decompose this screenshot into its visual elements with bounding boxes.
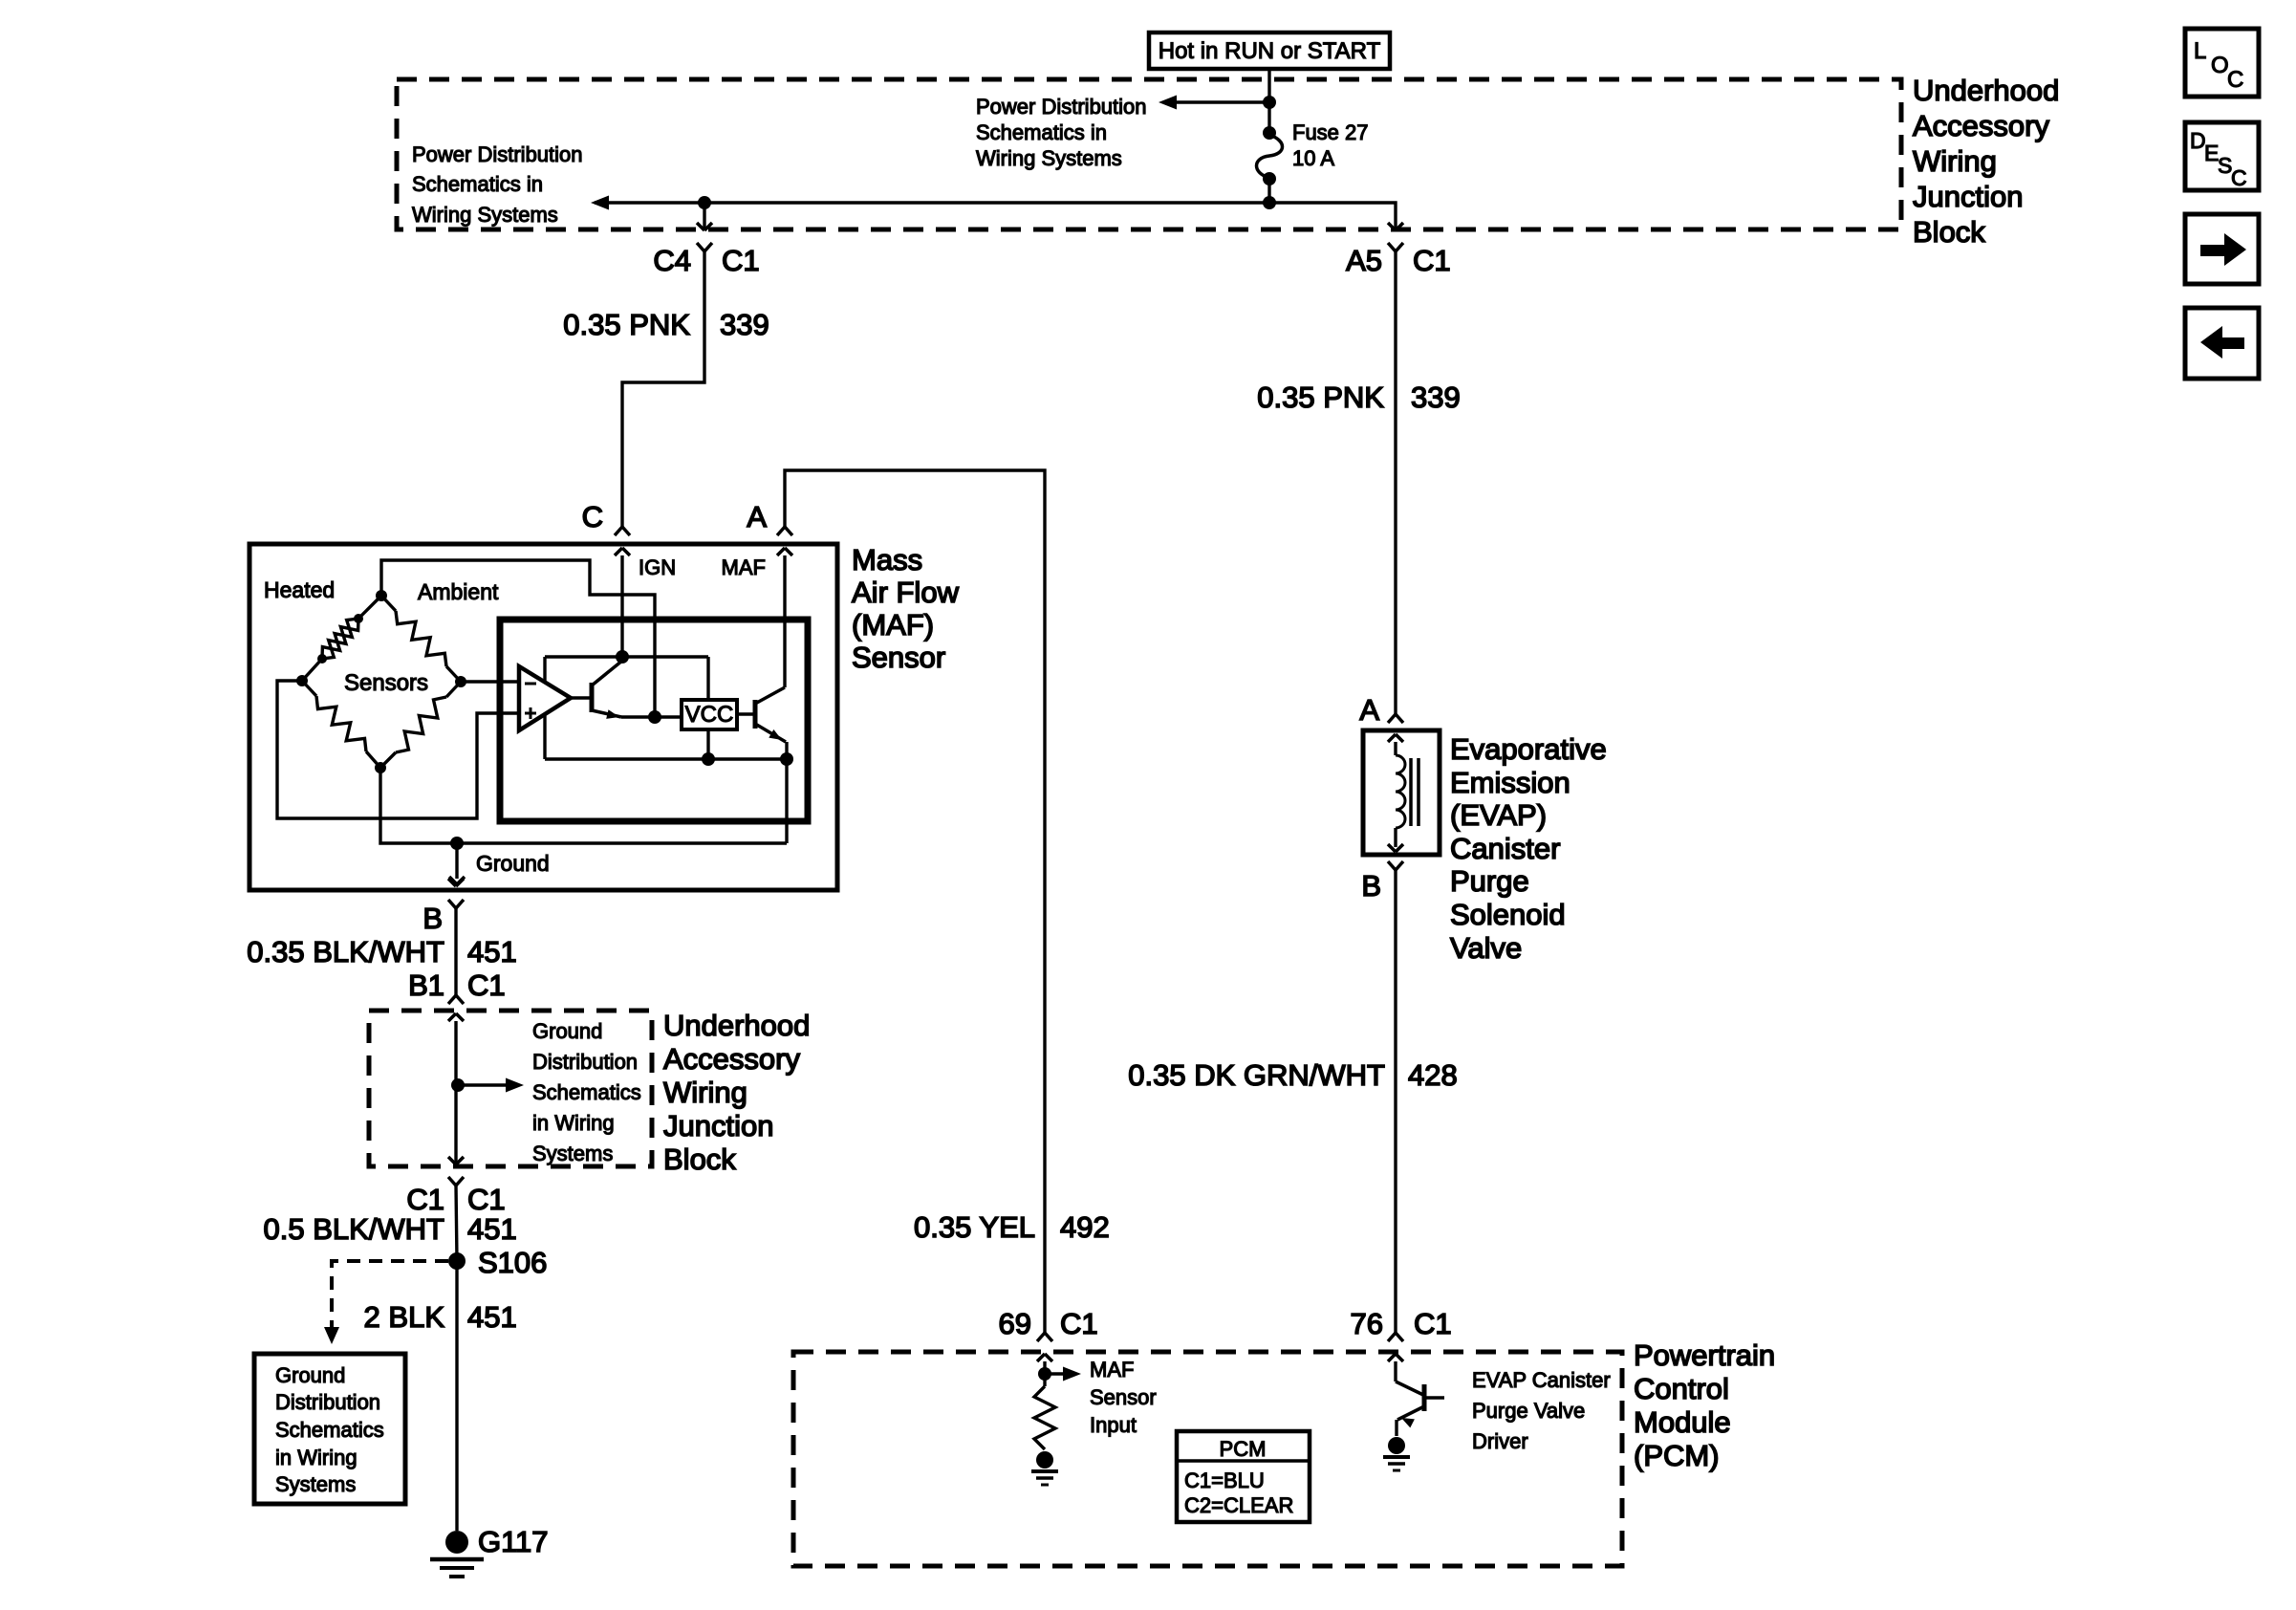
svg-text:MAF: MAF [722, 555, 766, 579]
svg-text:Junction: Junction [663, 1109, 773, 1142]
svg-text:0.35 PNK: 0.35 PNK [1257, 381, 1384, 414]
svg-text:492: 492 [1060, 1210, 1110, 1244]
svg-text:Systems: Systems [532, 1142, 613, 1165]
svg-text:B: B [1361, 869, 1381, 903]
wire: bridge left node to opamp + input [277, 681, 519, 818]
connector 69/C1 (PCM) [1037, 1333, 1045, 1341]
svg-text:C4: C4 [653, 244, 691, 277]
svg-text:L: L [2194, 38, 2206, 64]
svg-text:Valve: Valve [1450, 931, 1522, 965]
svg-text:C1: C1 [1060, 1307, 1098, 1340]
svg-text:B: B [422, 902, 443, 935]
ground distribution callout box [254, 1354, 405, 1504]
svg-text:Power Distribution: Power Distribution [976, 95, 1147, 119]
wire: arrow to ground distribution schematics [458, 1083, 510, 1086]
svg-text:C1: C1 [467, 1183, 506, 1216]
transistor Q1 (regulator pass) [571, 696, 592, 699]
svg-text:0.35 DK GRN/WHT: 0.35 DK GRN/WHT [1128, 1058, 1385, 1092]
svg-text:76: 76 [1351, 1307, 1383, 1340]
svg-text:Distribution: Distribution [532, 1050, 638, 1074]
svg-text:(PCM): (PCM) [1634, 1439, 1720, 1472]
svg-text:Powertrain: Powertrain [1634, 1338, 1775, 1372]
svg-text:Module: Module [1634, 1405, 1731, 1439]
svg-text:Distribution: Distribution [275, 1390, 380, 1414]
svg-text:Schematics in: Schematics in [976, 120, 1107, 144]
underhood accessory wiring junction block (dashed outline) [397, 79, 1901, 229]
svg-text:Underhood: Underhood [663, 1009, 810, 1042]
svg-text:IGN: IGN [639, 555, 676, 579]
svg-text:Accessory: Accessory [663, 1042, 800, 1076]
svg-text:2 BLK: 2 BLK [364, 1300, 445, 1334]
svg-text:Heated: Heated [264, 577, 335, 602]
svg-text:Wiring Systems: Wiring Systems [976, 146, 1122, 170]
svg-text:0.35 YEL: 0.35 YEL [914, 1210, 1035, 1244]
svg-text:C1: C1 [406, 1183, 444, 1216]
PCM connector legend box [1177, 1431, 1310, 1522]
svg-text:0.35 BLK/WHT: 0.35 BLK/WHT [247, 935, 444, 968]
node: bridge top [376, 590, 387, 601]
node: junction to ground distribution [451, 1078, 465, 1092]
regulator VCC box [682, 700, 737, 729]
wire: bridge bottom node to ground rail [380, 768, 787, 843]
wire: C4 drop [703, 203, 705, 229]
svg-text:VCC: VCC [685, 702, 734, 728]
svg-text:428: 428 [1408, 1058, 1458, 1092]
node: bus junction at C4 drop [698, 196, 711, 209]
wire 451: MAF B down to junction block [454, 908, 457, 995]
svg-text:(MAF): (MAF) [852, 608, 934, 642]
wire: MAF pin inside (to output transistor collector) [783, 555, 786, 687]
node: bridge bottom [375, 762, 386, 773]
wire 428: EVAP B down to PCM [1394, 870, 1397, 1333]
splice S106 [448, 1252, 466, 1270]
svg-text:Solenoid: Solenoid [1450, 898, 1566, 931]
solenoid core bars [1409, 758, 1413, 826]
svg-text:C2=CLEAR: C2=CLEAR [1184, 1493, 1293, 1517]
wire: through ground junction block [448, 1013, 456, 1021]
op-amp U1 [519, 666, 571, 730]
svg-text:Sensor: Sensor [852, 641, 945, 674]
wire: feedback loop left [543, 657, 546, 759]
node: Q1 emitter / bridge supply [648, 710, 661, 724]
svg-text:C1: C1 [1414, 1307, 1452, 1340]
ground junction block (dashed outline) [369, 1011, 652, 1166]
svg-text:Schematics: Schematics [532, 1080, 641, 1104]
svg-text:Purge: Purge [1450, 864, 1529, 898]
svg-text:10 A: 10 A [1292, 146, 1334, 170]
wire: bridge top node to regulator supply [381, 560, 655, 716]
node: feed junction [1263, 96, 1276, 109]
svg-text:Air Flow: Air Flow [852, 576, 960, 609]
sidebar icon: previous arrow [2185, 308, 2259, 379]
svg-text:Evaporative: Evaporative [1450, 732, 1607, 766]
svg-text:S106: S106 [478, 1246, 547, 1279]
svg-text:0.5 BLK/WHT: 0.5 BLK/WHT [264, 1212, 445, 1246]
svg-text:Systems: Systems [275, 1472, 356, 1496]
wire 451: S106 down to G117 [455, 1261, 458, 1531]
sidebar icon: DESC [2185, 122, 2259, 190]
connector 76/C1 (PCM) [1388, 1333, 1396, 1341]
connector B1/C1 [448, 995, 456, 1004]
node: bridge right [455, 676, 466, 687]
wire: MAF ground drop [455, 843, 458, 879]
svg-text:G117: G117 [478, 1525, 549, 1558]
ground G117 [445, 1531, 468, 1554]
svg-text:Sensor: Sensor [1090, 1385, 1157, 1409]
svg-text:Power Distribution: Power Distribution [412, 142, 583, 166]
wire: ground rail up to output emitter [785, 759, 788, 843]
sidebar icon: next arrow [2185, 214, 2259, 284]
svg-text:Junction: Junction [1913, 180, 2023, 213]
wire: MAF sensor input inside PCM [1043, 1361, 1046, 1386]
svg-text:451: 451 [467, 1212, 517, 1246]
svg-text:Schematics: Schematics [275, 1418, 384, 1442]
svg-text:Ground: Ground [476, 851, 550, 876]
powertrain control module (dashed outline) [793, 1352, 1622, 1566]
resistor: bridge bottom-right [446, 682, 461, 697]
svg-text:Emission: Emission [1450, 766, 1570, 799]
connector: EVAP pin A [1388, 714, 1396, 723]
svg-text:Mass: Mass [852, 543, 922, 577]
svg-text:MAF: MAF [1090, 1358, 1134, 1382]
power feed callout box: Hot in RUN or START [1149, 33, 1390, 69]
svg-text:Sensors: Sensors [344, 670, 428, 696]
node: VCC bottom junction [702, 752, 715, 766]
connector: MAF pin C [615, 527, 622, 535]
svg-text:A: A [1359, 693, 1379, 727]
svg-text:Wiring: Wiring [1913, 144, 1997, 178]
connector A5/C1 (junction block to harness) [1388, 223, 1396, 230]
svg-text:Control: Control [1634, 1372, 1729, 1405]
svg-text:339: 339 [720, 308, 769, 341]
svg-text:Underhood: Underhood [1913, 74, 2059, 107]
resistor: MAF input load [1034, 1386, 1055, 1449]
svg-text:339: 339 [1411, 381, 1461, 414]
svg-text:O: O [2211, 53, 2229, 78]
svg-text:451: 451 [467, 1300, 517, 1334]
resistor: ambient sensor (bridge top-right) [381, 596, 396, 611]
node: Q2 emitter junction [780, 752, 793, 766]
svg-text:Purge Valve: Purge Valve [1472, 1399, 1585, 1423]
wire: arrow to MAF Sensor Input label [1045, 1372, 1068, 1375]
node: IGN to Q1 collector / feedback [616, 650, 629, 664]
svg-text:Ground: Ground [532, 1019, 602, 1043]
svg-text:Input: Input [1090, 1413, 1137, 1437]
solenoid coil L1 [1394, 742, 1397, 755]
svg-text:Fuse 27: Fuse 27 [1292, 120, 1369, 144]
wire: arrow to Power Distribution (top) [1174, 100, 1269, 103]
resistor: bridge bottom-left [302, 681, 316, 696]
svg-text:C: C [2231, 165, 2247, 190]
amplifier module box (inner thick box) [500, 620, 808, 821]
wire: VCC top to feedback [706, 657, 709, 700]
wire: bridge right node to opamp - input [461, 680, 519, 683]
svg-text:EVAP Canister: EVAP Canister [1472, 1368, 1611, 1392]
wire: VCC bottom [706, 729, 709, 759]
svg-text:69: 69 [999, 1307, 1031, 1340]
svg-text:Accessory: Accessory [1913, 109, 2049, 142]
svg-text:Block: Block [663, 1142, 736, 1176]
svg-text:Ambient: Ambient [418, 579, 499, 604]
svg-text:in Wiring: in Wiring [532, 1111, 615, 1135]
svg-text:451: 451 [467, 935, 517, 968]
svg-text:in Wiring: in Wiring [275, 1446, 357, 1469]
connector: MAF pin A [777, 527, 785, 535]
resistor: heated sensor (double zigzag) [358, 596, 381, 619]
wire: IGN pin inside MAF [620, 555, 623, 657]
node: bridge left [296, 675, 308, 686]
wire 339: A5/C1 down to EVAP valve [1394, 251, 1397, 714]
svg-text:Ground: Ground [275, 1363, 345, 1387]
ground: EVAP driver (inside PCM) [1388, 1437, 1405, 1454]
svg-text:C: C [582, 500, 603, 533]
svg-text:0.35 PNK: 0.35 PNK [563, 308, 690, 341]
wire 339 segment: C1 to MAF pin C [622, 251, 704, 527]
ground: MAF input (inside PCM) [1036, 1451, 1053, 1469]
wire 451: to S106 [456, 1186, 457, 1261]
svg-text:Wiring Systems: Wiring Systems [412, 203, 558, 227]
sidebar icon: LOC [2185, 29, 2259, 97]
svg-text:C1=BLU: C1=BLU [1184, 1469, 1265, 1492]
svg-text:C1: C1 [1413, 244, 1451, 277]
connector C1/C1 (below ground junction block) [448, 1177, 456, 1186]
wire: feedback/ground rail bottom [545, 757, 787, 760]
connector: MAF pin B [448, 879, 456, 886]
svg-text:Wiring: Wiring [663, 1076, 747, 1109]
wire: fuse to bus [1267, 179, 1270, 203]
svg-text:C1: C1 [467, 968, 506, 1002]
connector C4/C1 (junction block to harness) [697, 223, 704, 230]
node: MAF input junction [1038, 1367, 1051, 1381]
svg-text:Driver: Driver [1472, 1429, 1528, 1453]
wire 492 segment: MAF pin A over to PCM column [785, 470, 1045, 1333]
svg-text:Schematics in: Schematics in [412, 172, 543, 196]
node: bus junction below fuse [1263, 196, 1276, 209]
connector: EVAP pin B [1388, 861, 1396, 870]
svg-text:B1: B1 [408, 968, 444, 1002]
wire: Hot in RUN or START feed down to fuse [1267, 69, 1270, 133]
EVAP canister purge solenoid valve box [1363, 730, 1440, 855]
svg-text:A5: A5 [1346, 244, 1382, 277]
svg-text:Block: Block [1913, 215, 1985, 249]
MAF sensor box [249, 544, 837, 890]
fuse F27 (Fuse 27 10 A) [1263, 126, 1276, 140]
transistor Q3: EVAP canister purge valve driver [1394, 1361, 1397, 1382]
svg-text:Hot in RUN or START: Hot in RUN or START [1159, 38, 1381, 64]
svg-text:A: A [747, 500, 767, 533]
svg-text:C: C [2227, 67, 2243, 93]
wire: dashed branch from S106 to ground distribution callout [332, 1261, 448, 1327]
wire: feedback loop top [545, 655, 708, 658]
node: MAF internal ground junction [450, 837, 464, 850]
transistor Q2 (MAF output) [737, 712, 755, 715]
svg-text:C1: C1 [722, 244, 760, 277]
svg-text:PCM: PCM [1220, 1437, 1267, 1461]
wire: main bus inside junction block [595, 203, 1396, 229]
svg-text:Canister: Canister [1450, 832, 1560, 865]
svg-text:(EVAP): (EVAP) [1450, 798, 1547, 832]
